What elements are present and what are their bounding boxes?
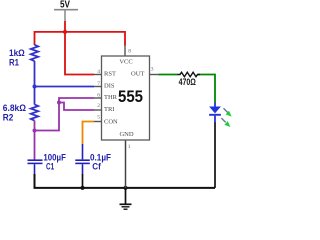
svg-text:7: 7 bbox=[97, 81, 100, 87]
svg-text:OUT: OUT bbox=[131, 71, 144, 78]
svg-text:Cf: Cf bbox=[92, 162, 101, 173]
svg-text:RST: RST bbox=[104, 71, 116, 78]
svg-text:DIS: DIS bbox=[104, 83, 115, 90]
svg-text:4: 4 bbox=[97, 69, 100, 75]
svg-text:8: 8 bbox=[128, 49, 131, 55]
svg-text:C1: C1 bbox=[46, 162, 55, 173]
svg-text:2: 2 bbox=[97, 103, 100, 109]
svg-text:5V: 5V bbox=[60, 0, 70, 11]
svg-text:THR: THR bbox=[104, 94, 118, 101]
svg-text:CON: CON bbox=[104, 119, 118, 126]
svg-text:555: 555 bbox=[118, 87, 143, 106]
svg-text:VCC: VCC bbox=[119, 58, 132, 65]
svg-text:GND: GND bbox=[119, 131, 133, 138]
svg-text:3: 3 bbox=[151, 66, 154, 72]
svg-text:6: 6 bbox=[97, 92, 100, 98]
svg-text:5: 5 bbox=[97, 115, 100, 121]
svg-text:TRI: TRI bbox=[104, 106, 114, 113]
svg-text:R2: R2 bbox=[3, 113, 14, 124]
svg-text:1: 1 bbox=[128, 144, 131, 150]
svg-text:470Ω: 470Ω bbox=[179, 77, 197, 87]
svg-text:R1: R1 bbox=[9, 57, 20, 68]
